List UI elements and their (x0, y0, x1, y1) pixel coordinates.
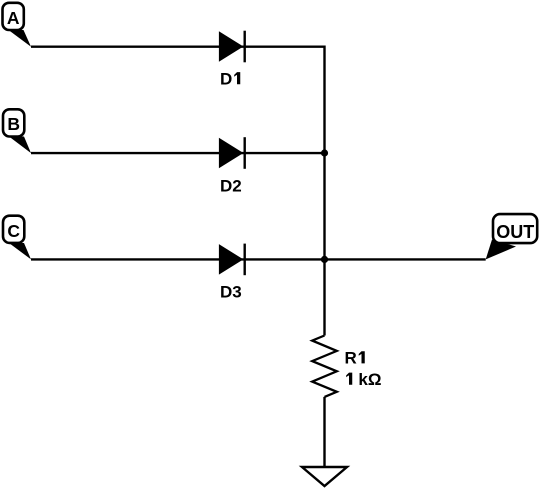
node flag OUT (486, 214, 538, 259)
wire B: input B to bus junction (31, 152, 325, 154)
svg-text:B: B (7, 114, 20, 134)
svg-text:R: R (345, 348, 357, 367)
wire: resistor bottom lead to ground (323, 397, 325, 467)
svg-text:kΩ: kΩ (358, 370, 381, 389)
label D1 (220, 69, 240, 88)
svg-text:D: D (220, 69, 232, 88)
wire A: input A to vertical bus, then bus down to resistor (31, 47, 325, 336)
label R1 (345, 348, 365, 367)
svg-text:C: C (7, 221, 20, 241)
diode D3 (220, 244, 245, 276)
diode D1 (220, 31, 245, 63)
svg-text:A: A (7, 8, 20, 28)
resistor R1 (312, 336, 337, 397)
value 1 kOhm (346, 370, 381, 389)
svg-text:D2: D2 (220, 177, 242, 196)
node flag A (3, 3, 32, 47)
node flag B (3, 109, 31, 153)
diode D2 (220, 137, 245, 169)
svg-text:D3: D3 (220, 283, 242, 302)
ground (302, 467, 347, 486)
node flag C (3, 216, 31, 260)
svg-text:OUT: OUT (496, 222, 534, 242)
node: junction dot C row (321, 256, 328, 263)
wire C: input C through bus junction to OUT (31, 258, 486, 260)
node: junction dot B row (321, 149, 328, 156)
